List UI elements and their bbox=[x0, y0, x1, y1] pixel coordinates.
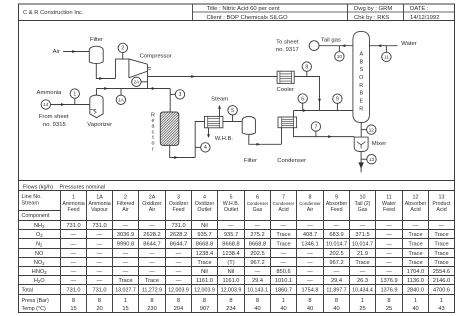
svg-text:Air: Air bbox=[149, 207, 156, 213]
svg-text:Tail (2): Tail (2) bbox=[355, 201, 371, 207]
svg-text:11,272.9: 11,272.9 bbox=[142, 287, 162, 293]
svg-text:Trace: Trace bbox=[434, 260, 448, 266]
svg-text:Acid: Acid bbox=[436, 207, 446, 213]
svg-text:W.H.B.: W.H.B. bbox=[215, 136, 234, 142]
svg-text:—: — bbox=[386, 251, 392, 257]
svg-text:—: — bbox=[97, 251, 103, 257]
svg-text:Gas: Gas bbox=[253, 207, 263, 213]
svg-text:13,027.7: 13,027.7 bbox=[115, 287, 136, 293]
svg-text:11: 11 bbox=[386, 194, 392, 200]
svg-text:1: 1 bbox=[414, 298, 417, 304]
svg-text:21.9: 21.9 bbox=[357, 251, 368, 257]
svg-text:1: 1 bbox=[124, 298, 127, 304]
svg-text:8668.8: 8668.8 bbox=[196, 241, 213, 247]
svg-text:Title : Nitric Acid 60 per cen: Title : Nitric Acid 60 per cent bbox=[207, 6, 280, 12]
svg-text:Pressures nominal: Pressures nominal bbox=[60, 185, 106, 191]
svg-text:2: 2 bbox=[124, 194, 127, 200]
svg-text:Feed: Feed bbox=[383, 207, 395, 213]
svg-text:—: — bbox=[307, 223, 313, 229]
svg-text:1: 1 bbox=[73, 91, 76, 97]
svg-text:Feed: Feed bbox=[67, 207, 79, 213]
svg-text:202.5: 202.5 bbox=[329, 251, 343, 257]
svg-text:6: 6 bbox=[301, 96, 304, 102]
svg-text:r: r bbox=[152, 146, 154, 152]
svg-text:—: — bbox=[176, 251, 182, 257]
svg-text:Nil: Nil bbox=[201, 269, 208, 275]
svg-text:12,003.9: 12,003.9 bbox=[221, 287, 242, 293]
svg-text:2628.2: 2628.2 bbox=[143, 232, 160, 238]
svg-text:Flows (kg/h): Flows (kg/h) bbox=[23, 185, 53, 191]
svg-text:Condenser: Condenser bbox=[273, 201, 295, 206]
svg-text:14: 14 bbox=[43, 102, 49, 107]
svg-text:731.0: 731.0 bbox=[66, 223, 80, 229]
svg-text:—: — bbox=[307, 251, 313, 257]
svg-text:R: R bbox=[359, 83, 363, 89]
svg-text:8: 8 bbox=[229, 298, 232, 304]
svg-text:12: 12 bbox=[369, 127, 375, 132]
svg-text:—: — bbox=[360, 223, 366, 229]
svg-text:2554.6: 2554.6 bbox=[433, 269, 450, 275]
svg-text:Trace: Trace bbox=[276, 241, 290, 247]
svg-text:—: — bbox=[360, 269, 366, 275]
svg-text:2628.2: 2628.2 bbox=[170, 232, 187, 238]
svg-text:—: — bbox=[71, 241, 77, 247]
svg-text:O2: O2 bbox=[36, 232, 43, 238]
svg-text:40: 40 bbox=[333, 306, 339, 312]
svg-text:40: 40 bbox=[307, 306, 313, 312]
svg-text:Feed: Feed bbox=[330, 207, 342, 213]
svg-text:8: 8 bbox=[98, 298, 101, 304]
svg-text:8: 8 bbox=[203, 298, 206, 304]
svg-text:Water: Water bbox=[401, 41, 417, 47]
svg-text:—: — bbox=[334, 223, 340, 229]
svg-text:—: — bbox=[386, 260, 392, 266]
svg-text:—: — bbox=[97, 269, 103, 275]
svg-text:Trace: Trace bbox=[408, 251, 422, 257]
svg-text:9: 9 bbox=[335, 194, 338, 200]
svg-text:8: 8 bbox=[256, 298, 259, 304]
svg-text:11,897.7: 11,897.7 bbox=[326, 287, 346, 293]
svg-text:29.4: 29.4 bbox=[252, 278, 263, 284]
svg-text:1161.0: 1161.0 bbox=[223, 278, 240, 284]
svg-text:3: 3 bbox=[179, 92, 182, 98]
svg-text:967.2: 967.2 bbox=[329, 260, 343, 266]
svg-text:731.0: 731.0 bbox=[67, 287, 81, 293]
svg-text:8644.7: 8644.7 bbox=[143, 241, 160, 247]
svg-text:2146.0: 2146.0 bbox=[433, 278, 450, 284]
svg-text:Filtered: Filtered bbox=[117, 201, 135, 207]
svg-text:8: 8 bbox=[387, 298, 390, 304]
svg-text:Air: Air bbox=[122, 207, 129, 213]
svg-text:1376.9: 1376.9 bbox=[380, 278, 397, 284]
svg-text:Filter: Filter bbox=[90, 37, 103, 43]
svg-text:7: 7 bbox=[315, 124, 318, 130]
svg-text:12: 12 bbox=[413, 194, 419, 200]
svg-text:1704.0: 1704.0 bbox=[407, 269, 424, 275]
svg-text:Trace: Trace bbox=[408, 232, 422, 238]
svg-text:Component: Component bbox=[22, 213, 50, 219]
svg-text:40: 40 bbox=[280, 306, 286, 312]
svg-text:275.2: 275.2 bbox=[250, 232, 264, 238]
svg-text:8: 8 bbox=[177, 298, 180, 304]
svg-text:Trace: Trace bbox=[197, 260, 211, 266]
svg-text:N2: N2 bbox=[36, 241, 43, 247]
svg-text:Client : BOP Chemicals SILGO: Client : BOP Chemicals SILGO bbox=[207, 15, 288, 21]
svg-text:Trace: Trace bbox=[434, 241, 448, 247]
svg-text:—: — bbox=[97, 278, 103, 284]
svg-text:NO2: NO2 bbox=[34, 260, 45, 266]
svg-text:13: 13 bbox=[369, 157, 375, 162]
svg-text:—: — bbox=[307, 269, 313, 275]
svg-text:371.5: 371.5 bbox=[355, 232, 369, 238]
svg-text:—: — bbox=[413, 223, 419, 229]
svg-text:Nil: Nil bbox=[228, 269, 235, 275]
svg-text:204: 204 bbox=[174, 306, 184, 312]
svg-text:no. 9315: no. 9315 bbox=[43, 122, 67, 128]
svg-text:2: 2 bbox=[121, 46, 124, 52]
svg-text:H2O: H2O bbox=[34, 278, 45, 284]
svg-text:8668.8: 8668.8 bbox=[249, 241, 266, 247]
svg-text:—: — bbox=[255, 223, 261, 229]
svg-text:40: 40 bbox=[412, 306, 418, 312]
svg-text:1010.1: 1010.1 bbox=[275, 278, 292, 284]
svg-text:15: 15 bbox=[122, 306, 128, 312]
svg-text:8: 8 bbox=[335, 298, 338, 304]
svg-text:731.0: 731.0 bbox=[171, 223, 185, 229]
svg-text:10,014.7: 10,014.7 bbox=[326, 241, 347, 247]
svg-text:202.5: 202.5 bbox=[250, 251, 264, 257]
svg-text:Trace: Trace bbox=[355, 260, 369, 266]
svg-text:—: — bbox=[386, 241, 392, 247]
svg-text:E: E bbox=[359, 99, 363, 105]
svg-text:935.7: 935.7 bbox=[224, 232, 238, 238]
svg-text:234: 234 bbox=[226, 306, 236, 312]
svg-text:A: A bbox=[359, 51, 363, 57]
svg-text:HNO3: HNO3 bbox=[32, 269, 47, 275]
svg-text:Acid: Acid bbox=[410, 207, 420, 213]
svg-text:Trace: Trace bbox=[408, 260, 422, 266]
svg-text:1238.4: 1238.4 bbox=[222, 251, 239, 257]
svg-text:Ammonia: Ammonia bbox=[37, 90, 63, 96]
svg-text:8: 8 bbox=[72, 298, 75, 304]
svg-text:1A: 1A bbox=[118, 97, 125, 102]
svg-text:10,143.1: 10,143.1 bbox=[247, 287, 268, 293]
svg-text:3036.9: 3036.9 bbox=[117, 232, 134, 238]
svg-text:Stream: Stream bbox=[22, 201, 40, 207]
svg-text:—: — bbox=[386, 223, 392, 229]
svg-text:1860.7: 1860.7 bbox=[275, 287, 292, 293]
svg-text:—: — bbox=[334, 269, 340, 275]
svg-text:4: 4 bbox=[204, 145, 207, 151]
svg-text:11: 11 bbox=[384, 55, 389, 60]
svg-text:967.2: 967.2 bbox=[250, 260, 264, 266]
svg-text:25: 25 bbox=[359, 306, 365, 312]
svg-text:Mixer: Mixer bbox=[372, 141, 386, 147]
svg-text:O: O bbox=[359, 75, 364, 81]
svg-text:8: 8 bbox=[150, 298, 153, 304]
svg-text:Tail gas: Tail gas bbox=[321, 37, 341, 43]
svg-text:2840.0: 2840.0 bbox=[407, 287, 424, 293]
svg-text:2A: 2A bbox=[134, 79, 141, 84]
svg-text:B: B bbox=[359, 91, 363, 97]
svg-text:683.9: 683.9 bbox=[329, 232, 343, 238]
svg-text:10,434.4: 10,434.4 bbox=[352, 287, 373, 293]
svg-text:—: — bbox=[97, 232, 103, 238]
svg-text:Trace: Trace bbox=[276, 232, 290, 238]
svg-text:6: 6 bbox=[256, 194, 259, 200]
svg-text:Vaporizer: Vaporizer bbox=[87, 122, 112, 128]
svg-text:—: — bbox=[149, 269, 155, 275]
svg-text:—: — bbox=[123, 260, 129, 266]
svg-text:20: 20 bbox=[96, 306, 102, 312]
svg-text:Air: Air bbox=[53, 49, 60, 55]
svg-text:Press (Bar): Press (Bar) bbox=[22, 298, 49, 304]
svg-text:907: 907 bbox=[200, 306, 210, 312]
svg-text:1136.0: 1136.0 bbox=[407, 278, 424, 284]
svg-text:5: 5 bbox=[231, 108, 234, 114]
svg-text:935.7: 935.7 bbox=[197, 232, 211, 238]
svg-text:Oxidizer: Oxidizer bbox=[142, 201, 162, 207]
svg-text:Line No.: Line No. bbox=[22, 194, 42, 200]
svg-text:29.4: 29.4 bbox=[331, 278, 342, 284]
svg-text:—: — bbox=[123, 251, 129, 257]
svg-text:Temp (°C): Temp (°C) bbox=[22, 306, 47, 312]
svg-text:—: — bbox=[97, 260, 103, 266]
svg-text:Ammonia: Ammonia bbox=[62, 201, 84, 207]
svg-text:—: — bbox=[149, 260, 155, 266]
svg-text:Chk by : RKS: Chk by : RKS bbox=[354, 15, 389, 21]
svg-text:43: 43 bbox=[438, 306, 444, 312]
svg-text:8668.8: 8668.8 bbox=[222, 241, 239, 247]
svg-text:R: R bbox=[359, 106, 363, 112]
svg-text:From sheet: From sheet bbox=[39, 114, 69, 120]
svg-text:—: — bbox=[71, 232, 77, 238]
svg-text:Feed: Feed bbox=[172, 207, 184, 213]
svg-text:1: 1 bbox=[440, 298, 443, 304]
svg-text:NH3: NH3 bbox=[34, 223, 45, 229]
svg-text:—: — bbox=[307, 278, 313, 284]
svg-text:Outlet: Outlet bbox=[197, 207, 212, 213]
svg-text:—: — bbox=[281, 223, 287, 229]
svg-text:—: — bbox=[386, 232, 392, 238]
svg-text:731.0: 731.0 bbox=[93, 287, 107, 293]
svg-text:13: 13 bbox=[439, 194, 445, 200]
svg-text:15: 15 bbox=[70, 306, 76, 312]
svg-text:—: — bbox=[149, 223, 155, 229]
svg-text:no. 9317: no. 9317 bbox=[276, 47, 299, 53]
svg-text:—: — bbox=[307, 260, 313, 266]
svg-text:B: B bbox=[359, 59, 363, 65]
svg-text:—: — bbox=[123, 223, 129, 229]
svg-text:Trace: Trace bbox=[145, 278, 159, 284]
svg-text:731.0: 731.0 bbox=[92, 223, 106, 229]
svg-text:1: 1 bbox=[72, 194, 75, 200]
svg-text:Water: Water bbox=[382, 201, 396, 207]
svg-text:Nil: Nil bbox=[201, 223, 208, 229]
svg-text:Condenser: Condenser bbox=[247, 201, 269, 206]
svg-text:To sheet: To sheet bbox=[276, 39, 299, 45]
svg-text:Cooler: Cooler bbox=[277, 87, 294, 93]
svg-text:Outlet: Outlet bbox=[224, 207, 239, 213]
svg-text:S: S bbox=[359, 67, 363, 73]
svg-text:1238.4: 1238.4 bbox=[196, 251, 213, 257]
svg-text:Gas: Gas bbox=[358, 207, 368, 213]
svg-text:—: — bbox=[149, 251, 155, 257]
svg-text:Absorber: Absorber bbox=[326, 201, 348, 207]
svg-text:—: — bbox=[439, 223, 445, 229]
svg-text:(T): (T) bbox=[227, 260, 234, 266]
svg-text:—: — bbox=[71, 251, 77, 257]
svg-text:26.3: 26.3 bbox=[357, 278, 368, 284]
svg-text:8: 8 bbox=[305, 64, 308, 70]
svg-text:230: 230 bbox=[147, 306, 157, 312]
svg-text:Absorber: Absorber bbox=[405, 201, 427, 207]
svg-text:Product: Product bbox=[432, 201, 451, 207]
svg-text:Acid: Acid bbox=[278, 207, 288, 213]
svg-text:Filter: Filter bbox=[244, 158, 257, 164]
svg-text:10,014.7: 10,014.7 bbox=[352, 241, 373, 247]
svg-text:9990.8: 9990.8 bbox=[117, 241, 134, 247]
svg-text:—: — bbox=[176, 269, 182, 275]
svg-text:Trace: Trace bbox=[434, 251, 448, 257]
svg-text:W.H.B.: W.H.B. bbox=[223, 201, 239, 207]
svg-text:1A: 1A bbox=[96, 194, 103, 200]
svg-text:2A: 2A bbox=[149, 194, 156, 200]
svg-text:—: — bbox=[176, 260, 182, 266]
svg-text:—: — bbox=[71, 269, 77, 275]
svg-text:3: 3 bbox=[177, 194, 180, 200]
svg-text:12,003.9: 12,003.9 bbox=[168, 287, 189, 293]
svg-text:7: 7 bbox=[282, 194, 285, 200]
svg-text:C & R Construction Inc.: C & R Construction Inc. bbox=[23, 10, 84, 16]
svg-text:Oxidizer: Oxidizer bbox=[169, 201, 189, 207]
svg-text:Dwg by : GRM: Dwg by : GRM bbox=[354, 6, 392, 12]
svg-text:—: — bbox=[123, 269, 129, 275]
svg-text:Trace: Trace bbox=[408, 241, 422, 247]
svg-text:25: 25 bbox=[386, 306, 392, 312]
svg-text:Trace: Trace bbox=[434, 232, 448, 238]
svg-text:Steam: Steam bbox=[211, 96, 228, 102]
svg-text:10: 10 bbox=[337, 54, 343, 59]
svg-text:Trace: Trace bbox=[118, 278, 132, 284]
svg-text:40: 40 bbox=[254, 306, 260, 312]
svg-text:Oxidizer: Oxidizer bbox=[195, 201, 215, 207]
svg-text:—: — bbox=[281, 251, 287, 257]
svg-text:850.6: 850.6 bbox=[276, 269, 290, 275]
svg-text:8644.7: 8644.7 bbox=[170, 241, 187, 247]
svg-text:—: — bbox=[71, 260, 77, 266]
svg-text:DATE :: DATE : bbox=[410, 6, 429, 12]
svg-text:5: 5 bbox=[230, 194, 233, 200]
svg-text:9: 9 bbox=[336, 97, 339, 103]
svg-text:1: 1 bbox=[282, 298, 285, 304]
svg-text:Air: Air bbox=[307, 207, 314, 213]
svg-text:Condenser: Condenser bbox=[277, 158, 306, 164]
svg-text:Vapour: Vapour bbox=[91, 207, 108, 213]
svg-text:12,003.9: 12,003.9 bbox=[194, 287, 215, 293]
svg-text:Compressor: Compressor bbox=[140, 54, 172, 60]
svg-text:14/12/1992: 14/12/1992 bbox=[410, 15, 439, 21]
svg-text:Condenser: Condenser bbox=[299, 201, 321, 206]
svg-text:—: — bbox=[386, 269, 392, 275]
svg-text:408.7: 408.7 bbox=[303, 232, 317, 238]
svg-text:NO: NO bbox=[35, 251, 44, 257]
svg-text:Total: Total bbox=[22, 287, 33, 293]
svg-text:—: — bbox=[255, 269, 261, 275]
svg-text:1: 1 bbox=[361, 298, 364, 304]
svg-text:8: 8 bbox=[308, 298, 311, 304]
svg-text:—: — bbox=[97, 241, 103, 247]
svg-text:8: 8 bbox=[309, 194, 312, 200]
svg-text:1161.0: 1161.0 bbox=[196, 278, 213, 284]
svg-text:1376.9: 1376.9 bbox=[380, 287, 397, 293]
svg-text:—: — bbox=[228, 223, 234, 229]
svg-text:1754.8: 1754.8 bbox=[301, 287, 318, 293]
svg-text:1346.1: 1346.1 bbox=[301, 241, 318, 247]
svg-text:—: — bbox=[71, 278, 77, 284]
svg-text:—: — bbox=[281, 260, 287, 266]
svg-text:4700.6: 4700.6 bbox=[433, 287, 450, 293]
svg-text:4: 4 bbox=[203, 194, 206, 200]
svg-text:—: — bbox=[176, 278, 182, 284]
svg-text:10: 10 bbox=[360, 194, 366, 200]
svg-text:Ammonia: Ammonia bbox=[88, 201, 110, 207]
